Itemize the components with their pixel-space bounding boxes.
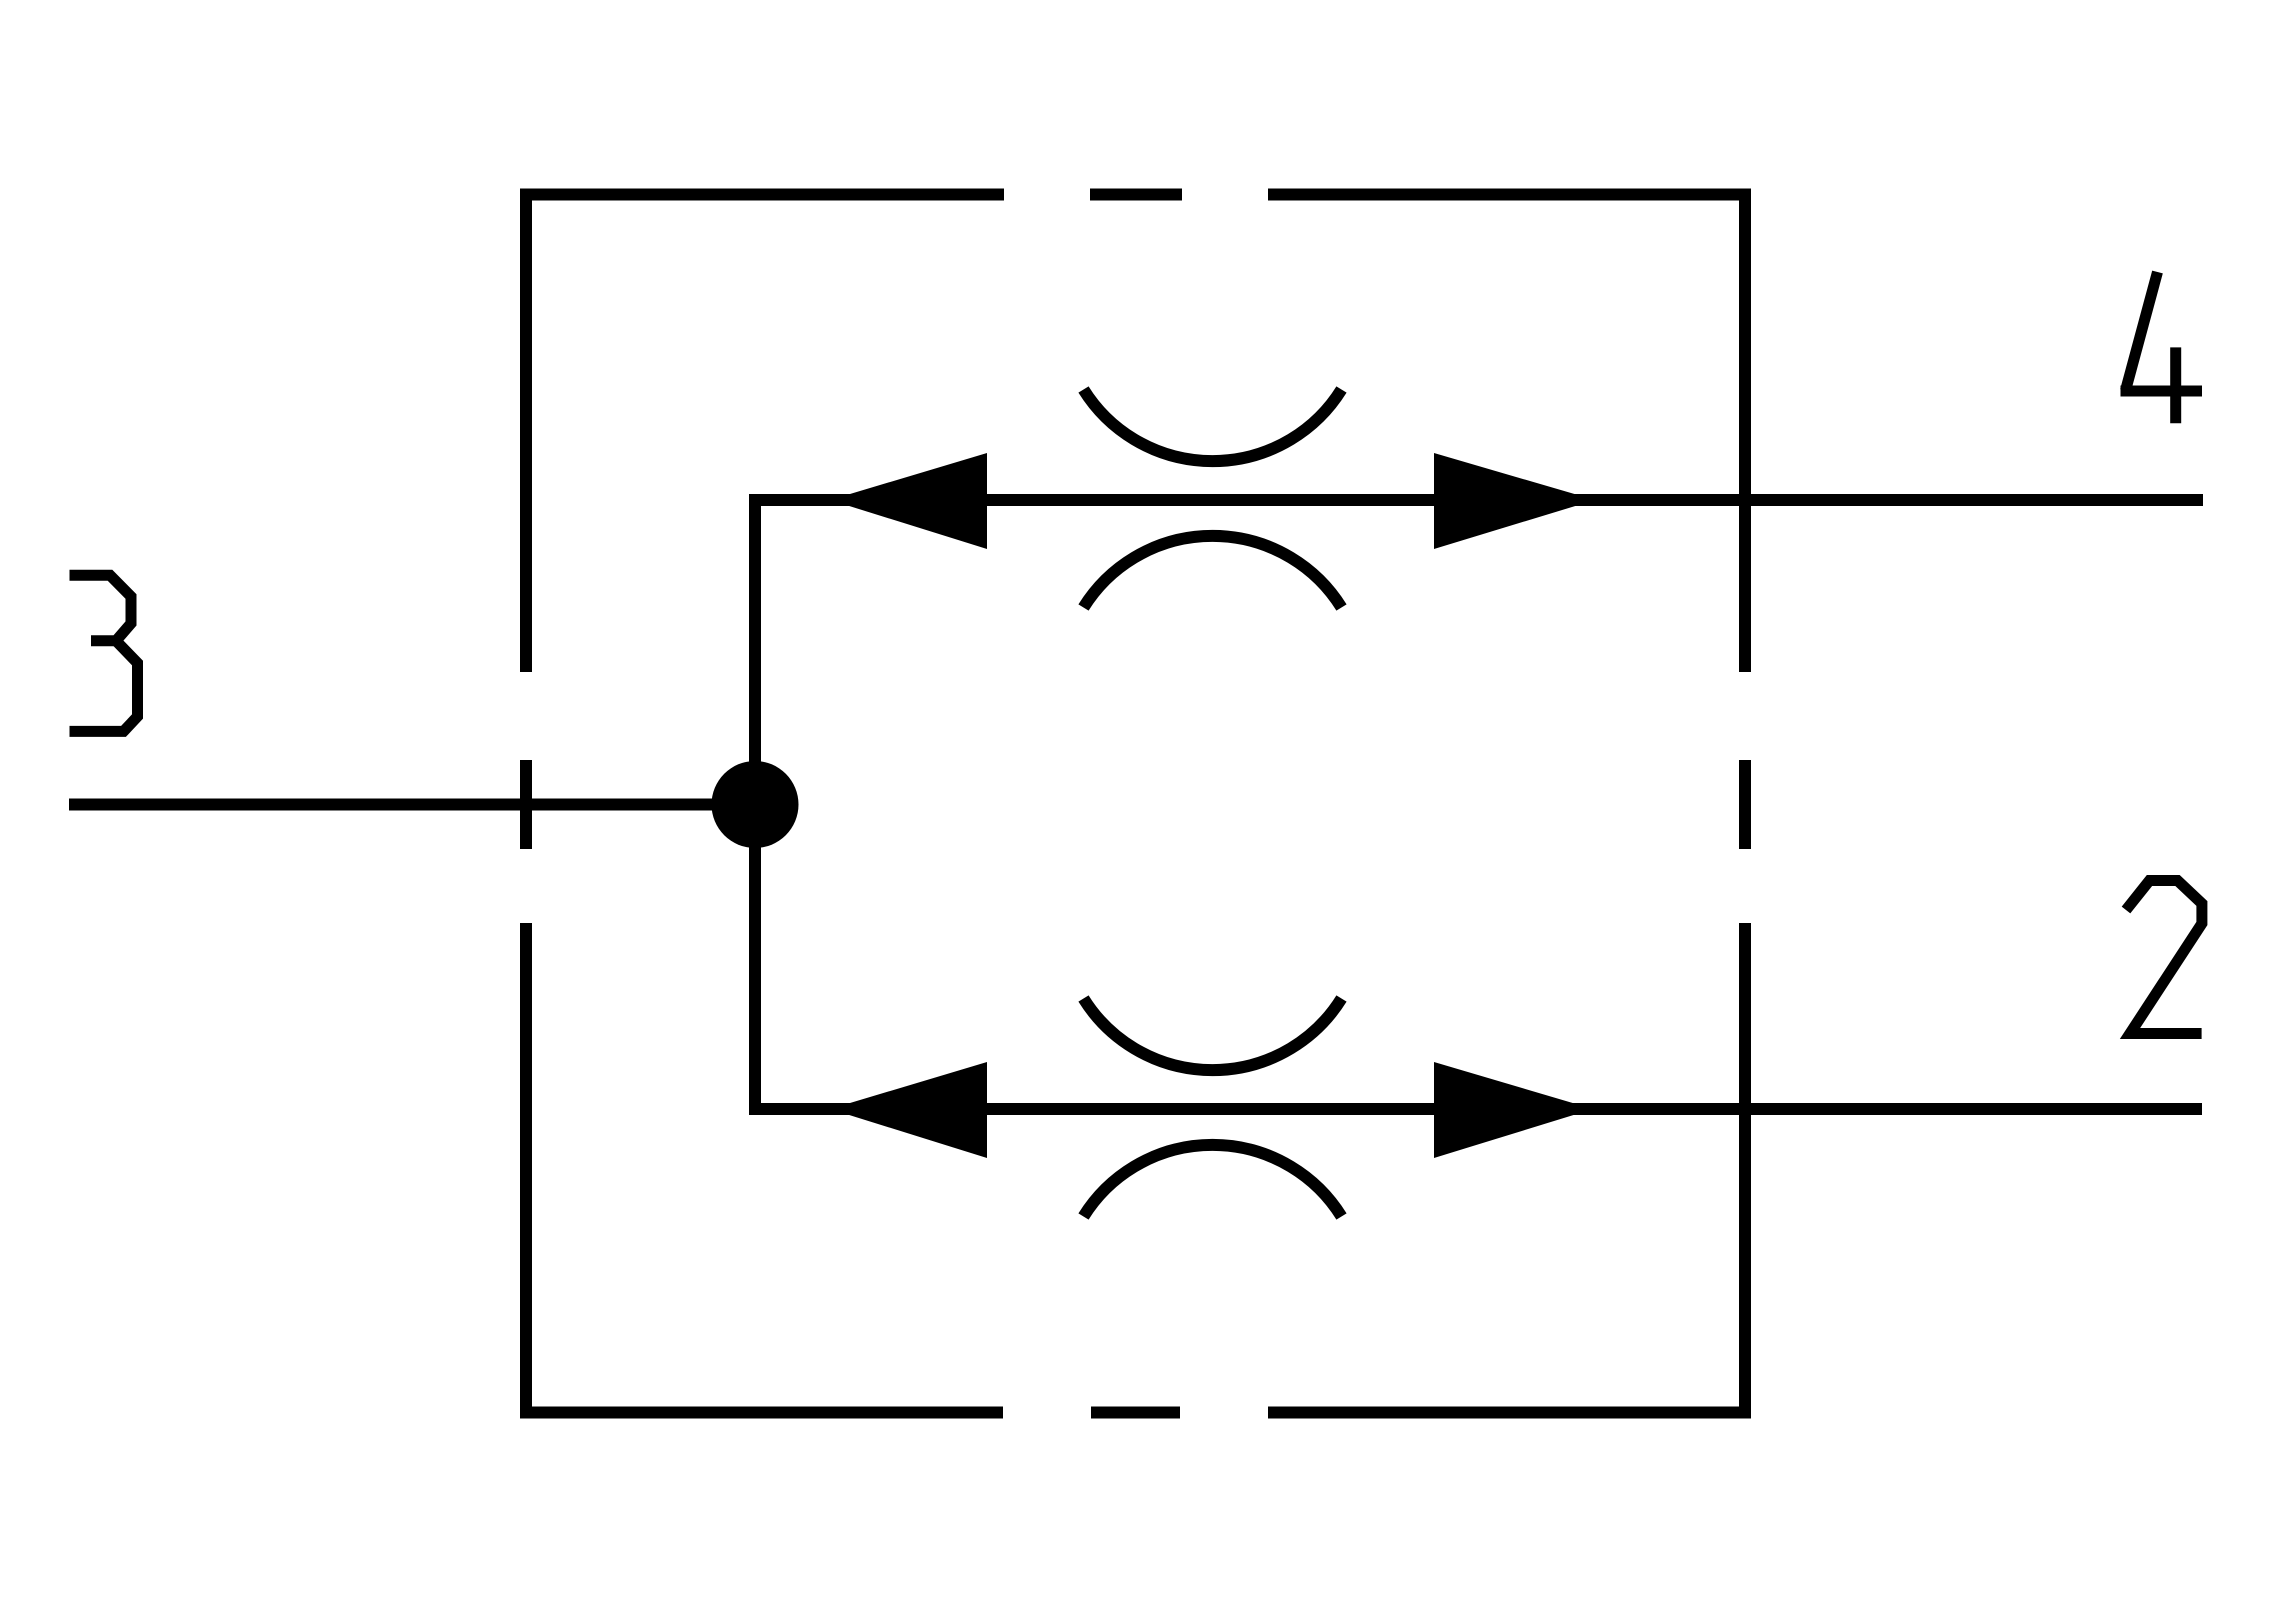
- throttle V2 upper arc: [1084, 999, 1342, 1071]
- port label 4: [2121, 272, 2203, 423]
- enclosure left border (dashed): [520, 189, 532, 1419]
- wire bottom branch to port 2: [749, 1103, 2202, 1115]
- wire top branch to port 4: [749, 494, 2203, 506]
- wire port 3 lead-in: [69, 799, 755, 811]
- throttle V1 lower arc: [1084, 536, 1342, 608]
- node junction dot: [712, 761, 799, 848]
- arrow left (top branch): [830, 453, 987, 549]
- throttle V1 upper arc: [1084, 390, 1342, 462]
- port label 2: [2126, 881, 2202, 1034]
- wire vertical branch from node: [749, 494, 761, 1115]
- arrow right (top branch): [1434, 453, 1595, 549]
- enclosure right border (dashed): [1739, 189, 1751, 1419]
- arrow left (bottom branch): [830, 1062, 987, 1158]
- arrow right (bottom branch): [1434, 1062, 1593, 1158]
- enclosure top border (dashed): [520, 189, 1751, 201]
- enclosure bottom border (dashed): [520, 1407, 1751, 1419]
- throttle V2 lower arc: [1084, 1145, 1342, 1217]
- port label 3: [70, 575, 138, 731]
